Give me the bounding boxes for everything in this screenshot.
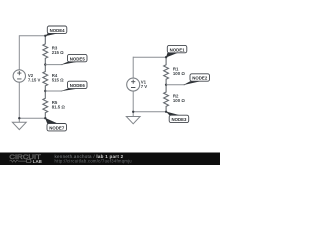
wire left circuit top horizontal	[19, 35, 45, 37]
node flag NODE1	[166, 45, 187, 57]
voltage source V2	[13, 70, 40, 83]
svg-text:NODE4: NODE4	[50, 28, 66, 33]
svg-text:NODE7: NODE7	[49, 125, 65, 130]
svg-text:NODE6: NODE6	[70, 83, 86, 88]
svg-text:NODE1: NODE1	[170, 47, 186, 52]
node at top of right chain	[165, 56, 167, 58]
junction dot right rail / ground	[132, 111, 134, 113]
ground (right)	[126, 112, 140, 124]
node flag NODE3	[166, 112, 189, 123]
svg-text:100 Ω: 100 Ω	[173, 98, 185, 103]
node flag NODE7	[45, 118, 66, 131]
svg-text:NODE3: NODE3	[171, 117, 187, 122]
junction dot left rail / ground	[18, 117, 20, 119]
resistor R5	[43, 91, 65, 118]
wire right circuit top horizontal	[133, 56, 166, 58]
wire right circuit left vertical lower	[132, 91, 134, 112]
svg-text:515 Ω: 515 Ω	[52, 78, 64, 83]
svg-text:NODE2: NODE2	[192, 76, 208, 81]
node between R3 and R4	[44, 63, 46, 65]
svg-text:100 Ω: 100 Ω	[173, 71, 185, 76]
voltage source V1	[127, 78, 148, 91]
node between R1 and R2	[165, 84, 167, 86]
node flag NODE6	[45, 81, 87, 91]
svg-text:215 Ω: 215 Ω	[52, 50, 64, 55]
node flag NODE5	[45, 54, 87, 65]
svg-text:7.15 V: 7.15 V	[28, 78, 41, 83]
svg-text:http://circuitlab.com/c/7uef34: http://circuitlab.com/c/7uef34fmqmju	[55, 159, 132, 164]
resistor R1	[164, 57, 186, 85]
svg-text:81.5 Ω: 81.5 Ω	[52, 105, 66, 110]
resistor R2	[164, 85, 186, 112]
svg-text:NODE5: NODE5	[70, 56, 86, 61]
wire left circuit bottom horizontal	[19, 117, 45, 119]
node flag NODE4	[45, 26, 67, 36]
svg-text:LAB: LAB	[33, 159, 42, 164]
node between R4 and R5	[44, 90, 46, 92]
wire left circuit left vertical lower	[18, 82, 20, 118]
node at bottom of right chain	[165, 111, 167, 113]
wire right circuit left vertical upper	[132, 57, 134, 78]
node at bottom of left chain	[44, 117, 46, 119]
wire right circuit bottom horizontal	[133, 111, 166, 113]
CircuitLab logo underline resistor motif	[10, 160, 27, 162]
footer bar	[0, 153, 220, 166]
svg-text:7 V: 7 V	[141, 84, 148, 89]
wire left circuit left vertical upper	[18, 35, 20, 70]
ground (left)	[12, 118, 26, 129]
resistor R4	[43, 65, 64, 91]
node at top of left chain	[44, 35, 46, 37]
node flag NODE2	[166, 74, 209, 85]
resistor R3	[43, 36, 64, 65]
